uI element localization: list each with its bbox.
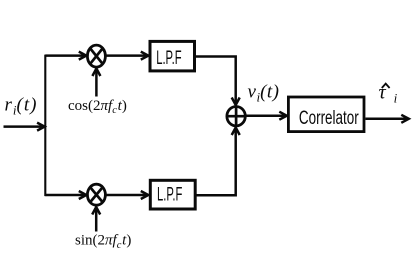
svg-text:vi(t): vi(t)	[248, 82, 280, 105]
wire multiplier to LPF	[106, 54, 148, 57]
wire input arrow into splitter	[4, 125, 45, 128]
node r_i(t) input label	[5, 95, 38, 118]
wire top branch to multiplier	[45, 54, 85, 57]
wire multiplier to LPF (bottom)	[106, 194, 148, 197]
node tau-hat_i output label	[379, 82, 398, 106]
wire splitter vertical line	[44, 55, 46, 197]
multiplier (bottom mixer)	[87, 184, 105, 205]
svg-text:Correlator: Correlator	[299, 108, 359, 129]
wire summer to correlator	[245, 114, 286, 117]
block Correlator	[288, 97, 364, 132]
svg-text:ri(t): ri(t)	[5, 95, 38, 118]
wire bottom branch to multiplier	[45, 194, 85, 197]
node cos(2pi fc t) label	[68, 98, 127, 116]
svg-text:sin(2πfct): sin(2πfct)	[75, 233, 131, 251]
block L.P.F (top low-pass filter)	[150, 41, 195, 71]
wire sin oscillator arrow up	[95, 208, 98, 232]
wire LPF to summer (bottom, corner right-up)	[195, 128, 236, 195]
wire cos oscillator arrow up	[95, 69, 98, 97]
svg-text:L.P.F: L.P.F	[157, 185, 182, 206]
summer (adder)	[227, 107, 245, 126]
block L.P.F (bottom low-pass filter)	[150, 180, 195, 209]
wire LPF to summer (top, corner right-down)	[195, 57, 236, 105]
node sin(2pi fc t) label	[75, 233, 131, 251]
node v_i(t) label	[248, 82, 280, 105]
svg-text:cos(2πfct): cos(2πfct)	[68, 98, 127, 116]
wire output arrow	[365, 118, 408, 121]
multiplier (top mixer)	[87, 45, 105, 67]
svg-text:L.P.F: L.P.F	[156, 47, 181, 69]
